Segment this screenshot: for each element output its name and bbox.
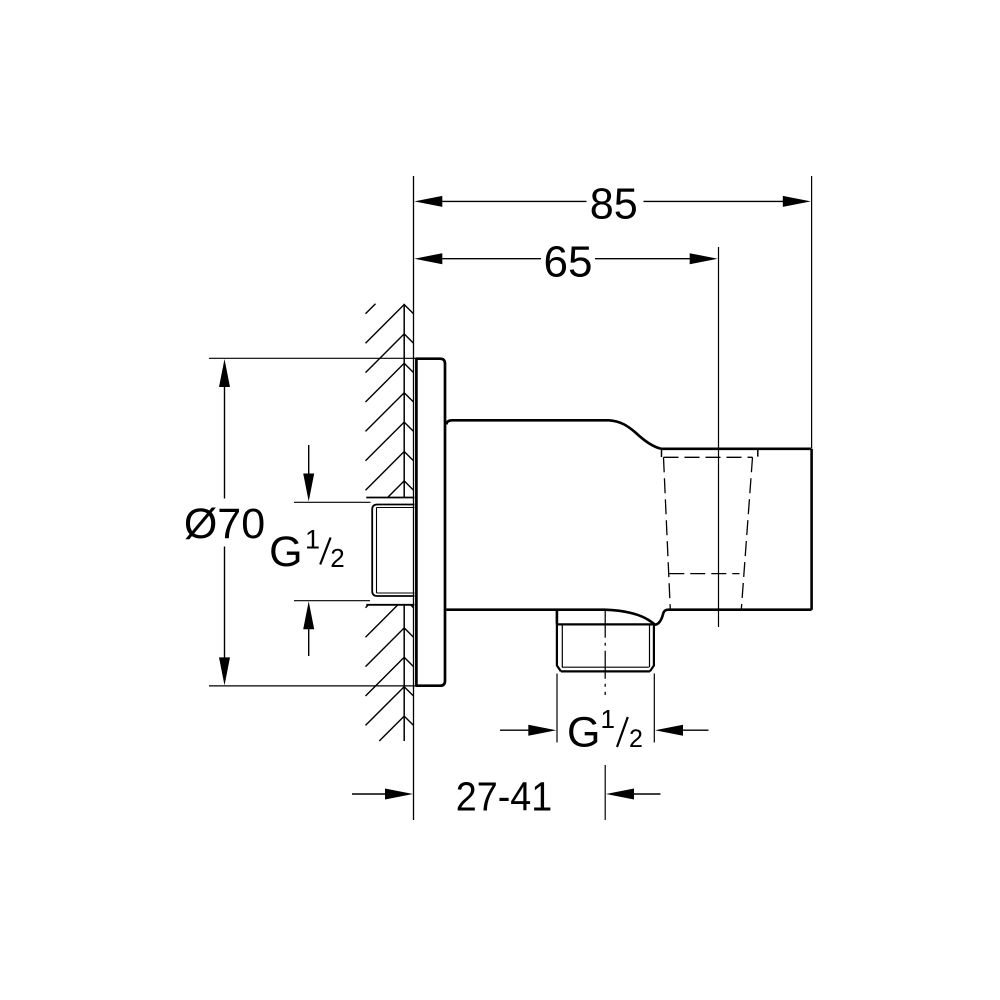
dim 27-41 arrow left bbox=[385, 789, 413, 800]
dim 27-41 line right bbox=[634, 793, 661, 795]
svg-text:Ø70: Ø70 bbox=[184, 500, 265, 548]
svg-text:65: 65 bbox=[544, 238, 593, 287]
outlet nut top edge bbox=[557, 623, 654, 625]
outlet nut right outer edge + chamfer bbox=[650, 624, 654, 671]
dim 85 arrow right bbox=[783, 196, 811, 207]
dim 27-41 line left bbox=[352, 793, 386, 795]
holder ring right edge tick bbox=[757, 450, 759, 457]
dim 65 line right part bbox=[595, 258, 690, 260]
dim G1/2 outlet line right bbox=[682, 729, 709, 731]
bottom S-curve above outlet (left) bbox=[605, 610, 655, 625]
svg-text:1: 1 bbox=[305, 525, 320, 555]
holder cone hidden left edge bbox=[664, 457, 671, 609]
svg-text:G: G bbox=[269, 528, 302, 576]
dim D70 extension line bottom bbox=[209, 685, 443, 687]
escutcheon flange bbox=[416, 359, 445, 686]
dim G1/2 inlet arrow down bbox=[303, 474, 314, 502]
dim G1/2 outlet extension line left bbox=[556, 674, 558, 743]
svg-text:1: 1 bbox=[601, 704, 615, 734]
holder / cylinder top edge bbox=[661, 447, 812, 450]
wall hatch upper patch bbox=[366, 304, 376, 314]
dim G1/2 inlet extension line bottom bbox=[294, 600, 370, 602]
bottom S-curve above outlet (right) bbox=[655, 610, 669, 625]
wall hole boundary lines bbox=[366, 497, 414, 499]
dim G1/2 outlet arrow right bbox=[655, 725, 683, 736]
svg-text:G: G bbox=[567, 709, 600, 757]
dim G1/2 inlet extension line top bbox=[294, 501, 371, 503]
dim 65 extension line right bbox=[718, 247, 720, 627]
dim 85 line left part bbox=[442, 200, 586, 202]
wall face / dimension extension line bbox=[413, 176, 415, 820]
dim 85 extension line right bbox=[811, 176, 813, 448]
wall inner layer line bbox=[403, 304, 405, 498]
dim 85 arrow left bbox=[414, 196, 442, 207]
outlet stub left wall bbox=[556, 610, 559, 625]
dim G1/2 outlet arrow left bbox=[528, 725, 556, 736]
svg-text:85: 85 bbox=[590, 180, 638, 229]
dim G1/2 outlet extension line right bbox=[653, 674, 655, 743]
dim G1/2 outlet line left bbox=[500, 729, 530, 731]
holder cone hidden top edge bbox=[664, 456, 753, 458]
inlet thread G1/2 square (behind wall) bbox=[372, 505, 414, 597]
holder cone hidden right edge bbox=[741, 457, 752, 609]
dim G1/2 inlet arrow up tail bbox=[308, 629, 310, 656]
dim D70 line lower part bbox=[224, 547, 226, 658]
outlet nut right chamfer line bbox=[649, 624, 651, 667]
outlet nut bottom outer edge bbox=[561, 670, 650, 672]
dim 65 arrow right bbox=[690, 253, 718, 264]
dim 27-41 arrow right bbox=[606, 789, 634, 800]
dim 85 line right part bbox=[644, 200, 784, 202]
cylinder right end edge bbox=[810, 449, 813, 610]
body bottom edge left segment bbox=[446, 608, 604, 611]
dim D70 arrow up bbox=[219, 359, 230, 387]
dim D70 line upper part bbox=[224, 387, 226, 499]
body top edge bbox=[446, 420, 603, 424]
dim D70 arrow down bbox=[219, 657, 230, 685]
dim D70 extension line top bbox=[209, 357, 416, 359]
inlet thread root lines bbox=[377, 507, 415, 509]
svg-text:2: 2 bbox=[330, 543, 344, 573]
svg-text:27-41: 27-41 bbox=[456, 773, 553, 819]
body top S-curve to holder bbox=[603, 420, 661, 449]
dim 27-41 extension (outlet centerline continuation) bbox=[604, 765, 606, 820]
dim G1/2 inlet arrow down tail bbox=[308, 445, 310, 474]
holder cone hidden bottom edge bbox=[669, 573, 739, 575]
outlet centerline (dash-dot) bbox=[604, 610, 606, 695]
outlet nut bottom inner line bbox=[562, 666, 649, 668]
wall hatch lower patch bbox=[366, 605, 369, 608]
outlet nut left outer edge + chamfer bbox=[557, 624, 561, 671]
dim G1/2 inlet arrow up bbox=[303, 601, 314, 629]
cylinder bottom edge right segment bbox=[668, 608, 812, 611]
svg-text:2: 2 bbox=[629, 725, 643, 753]
outlet nut left chamfer line bbox=[561, 624, 563, 667]
dim 65 line left part bbox=[442, 258, 541, 260]
dim 65 arrow left bbox=[414, 253, 442, 264]
holder ring left edge tick bbox=[661, 450, 663, 458]
